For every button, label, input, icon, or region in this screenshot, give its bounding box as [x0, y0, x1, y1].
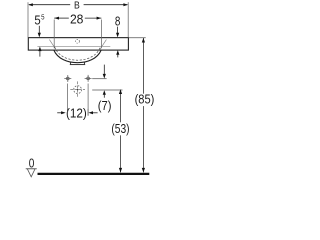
dimension B line — [29, 4, 70, 6]
interior left wall diagonal — [49, 40, 56, 50]
svg-text:(7): (7) — [98, 99, 112, 113]
bowl outer curve — [54, 50, 101, 63]
drain vertical center line — [77, 81, 79, 97]
dimension (85) top arrow — [142, 38, 145, 43]
dimension (12) label — [69, 107, 85, 120]
svg-text:(53): (53) — [111, 122, 129, 136]
dimension (12) extension tick left — [66, 109, 68, 116]
drain target circle — [74, 86, 82, 94]
dimension 8 top arrow — [117, 27, 119, 34]
svg-text:B: B — [74, 0, 80, 11]
dimension 8 bottom arrow — [116, 50, 119, 55]
dimension (53) top arrow — [119, 89, 122, 94]
dimension (12) line left — [57, 112, 61, 114]
waste flange — [70, 62, 72, 64]
dimension (53) line — [120, 90, 122, 173]
fixing hole extension line left — [66, 84, 68, 116]
fixing axis extension line — [92, 78, 106, 80]
svg-text:0: 0 — [29, 156, 35, 170]
waste flange bottom lip — [70, 64, 85, 66]
dimension 28 extension line right — [100, 20, 102, 49]
dimension B right arrow — [123, 3, 128, 6]
svg-text:5: 5 — [41, 12, 44, 21]
dimension B extension line right — [127, 2, 129, 37]
interior right wall diagonal — [100, 40, 107, 50]
bowl inner hidden curve — [55, 47, 101, 60]
washbasin outline — [28, 38, 128, 50]
svg-text:(12): (12) — [66, 107, 87, 121]
rim top extension line — [129, 37, 146, 39]
svg-text:(85): (85) — [135, 93, 155, 107]
interior ledge hidden line — [37, 45, 110, 47]
drain horizontal center line — [70, 89, 85, 91]
floor line — [38, 173, 150, 175]
svg-text:28: 28 — [70, 12, 84, 26]
dimension 28 right arrow — [97, 17, 102, 20]
svg-text:8: 8 — [115, 14, 121, 28]
fixing hole extension line right — [87, 84, 89, 116]
dimension (85) label — [134, 94, 155, 106]
dimension (12) extension tick right — [87, 109, 89, 116]
dimension (7) top arrow — [103, 65, 105, 75]
datum level line — [26, 168, 37, 170]
dimension 28 left arrow — [54, 17, 59, 20]
svg-text:5: 5 — [34, 13, 40, 27]
datum triangle — [27, 169, 35, 177]
fixing hole right crosshair — [85, 75, 92, 82]
dimension (12) left arrow — [61, 111, 66, 114]
dimension (12) right arrow — [88, 111, 93, 114]
dimension 5.5 bottom arrow — [38, 47, 41, 52]
tap hole dashed circle — [76, 39, 80, 43]
dimension 5.5 top arrow — [38, 26, 40, 34]
dimension (12) line right — [93, 112, 98, 114]
dimension (85) bottom arrow — [142, 168, 145, 173]
dimension 28 extension line left — [53, 20, 55, 49]
dimension (53) label — [111, 122, 131, 135]
dimension (7) bottom arrow — [103, 90, 106, 95]
dimension (53) bottom arrow — [119, 168, 122, 173]
dimension B left arrow — [28, 3, 33, 6]
dimension (85) line — [142, 38, 144, 172]
drain axis extension line — [92, 89, 122, 91]
dimension B extension line left — [27, 2, 29, 37]
drain center dot — [77, 89, 79, 91]
dimension 28 line — [54, 17, 69, 19]
fixing hole left crosshair — [64, 75, 71, 82]
